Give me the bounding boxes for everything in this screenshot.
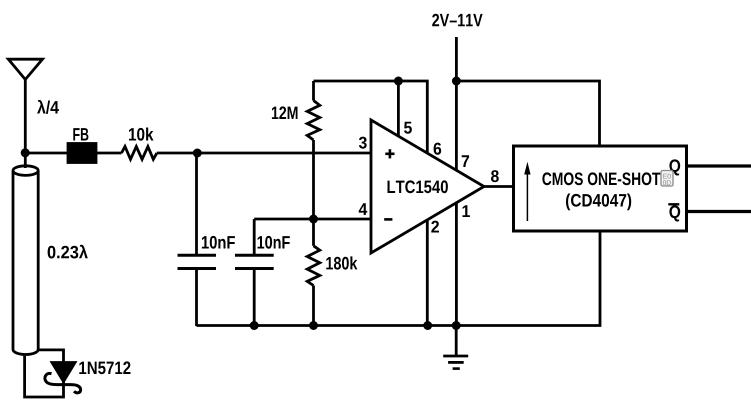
wire FB to 10k xyxy=(96,152,122,155)
wire 12M to 180k xyxy=(312,140,315,246)
label 10nF C1 xyxy=(202,236,235,249)
one-shot trigger arrow xyxy=(526,172,528,221)
op-amp minus sign xyxy=(384,218,392,221)
wire stub short loop xyxy=(25,350,64,397)
label 1N5712 xyxy=(79,361,130,374)
Qbar overline xyxy=(668,203,679,205)
wire 10k to pin3 xyxy=(157,152,371,155)
resistor 12M xyxy=(307,101,320,141)
node pin5 top xyxy=(394,77,403,86)
wire bottom bus xyxy=(197,231,601,326)
antenna xyxy=(8,59,42,79)
one-shot box CD4047 xyxy=(514,146,687,231)
wire main horizontal left xyxy=(25,152,69,155)
label 2V-11V xyxy=(432,14,482,27)
wire pin5 xyxy=(397,81,400,138)
label (CD4047) xyxy=(566,194,631,211)
wire stub stem xyxy=(24,153,27,168)
pin 4 xyxy=(359,203,368,215)
op-amp U1 LTC1540 comparator xyxy=(371,120,484,253)
resistor 10k xyxy=(122,147,157,160)
label 12M xyxy=(272,106,298,119)
node junction dots xyxy=(21,77,461,331)
capacitor C2 10nF branch xyxy=(253,219,256,254)
ferrite bead FB xyxy=(68,144,96,163)
label lambda/4 xyxy=(37,100,59,114)
wire supply 2V-11V vertical xyxy=(455,37,458,326)
wire top bus to pin6 xyxy=(314,81,428,155)
wire 180k to bottom xyxy=(312,286,315,327)
pin 8 xyxy=(491,170,499,182)
node antenna/stub junction xyxy=(21,148,30,157)
wire supply to one-shot top xyxy=(456,81,599,146)
node IN- junction xyxy=(309,215,318,224)
node ground junction xyxy=(452,321,461,330)
pin 7 xyxy=(462,155,469,167)
wire pin4 horizontal xyxy=(254,218,371,221)
ground xyxy=(455,326,458,356)
pin 1 xyxy=(463,205,470,217)
pin 6 xyxy=(434,143,442,155)
diode cathode squiggle xyxy=(45,373,81,392)
node 180k bottom xyxy=(309,321,318,330)
pin 2 xyxy=(431,221,439,233)
wire Qbar output xyxy=(688,210,751,213)
label CMOS ONE-SHOT xyxy=(542,172,660,185)
label FB xyxy=(73,128,88,140)
label Qbar xyxy=(669,205,680,221)
wire antenna stem xyxy=(24,80,27,154)
coax stub 0.23 lambda xyxy=(13,166,38,176)
label 10k xyxy=(129,128,154,141)
wire Q output xyxy=(688,164,751,167)
label 180k xyxy=(326,256,357,269)
label 0.23 lambda xyxy=(48,245,88,259)
label 10nF C2 xyxy=(258,236,290,249)
wire pin2 xyxy=(426,219,429,326)
capacitor C1 10nF branch xyxy=(195,153,198,254)
pin 5 xyxy=(404,122,412,134)
artifact badge xyxy=(661,171,673,187)
node supply top xyxy=(452,77,461,86)
diode 1N5712 xyxy=(52,363,75,382)
wire 12M top xyxy=(312,81,315,101)
node IN+ junction xyxy=(193,149,202,158)
label Q xyxy=(669,159,680,175)
pin 3 xyxy=(359,137,367,149)
label LTC1540 xyxy=(388,180,448,193)
resistor 180k xyxy=(307,246,320,286)
node pin2 bottom xyxy=(423,321,432,330)
node C2 bottom xyxy=(250,321,259,330)
wire pin8 output xyxy=(484,185,514,188)
op-amp plus sign xyxy=(385,149,394,158)
